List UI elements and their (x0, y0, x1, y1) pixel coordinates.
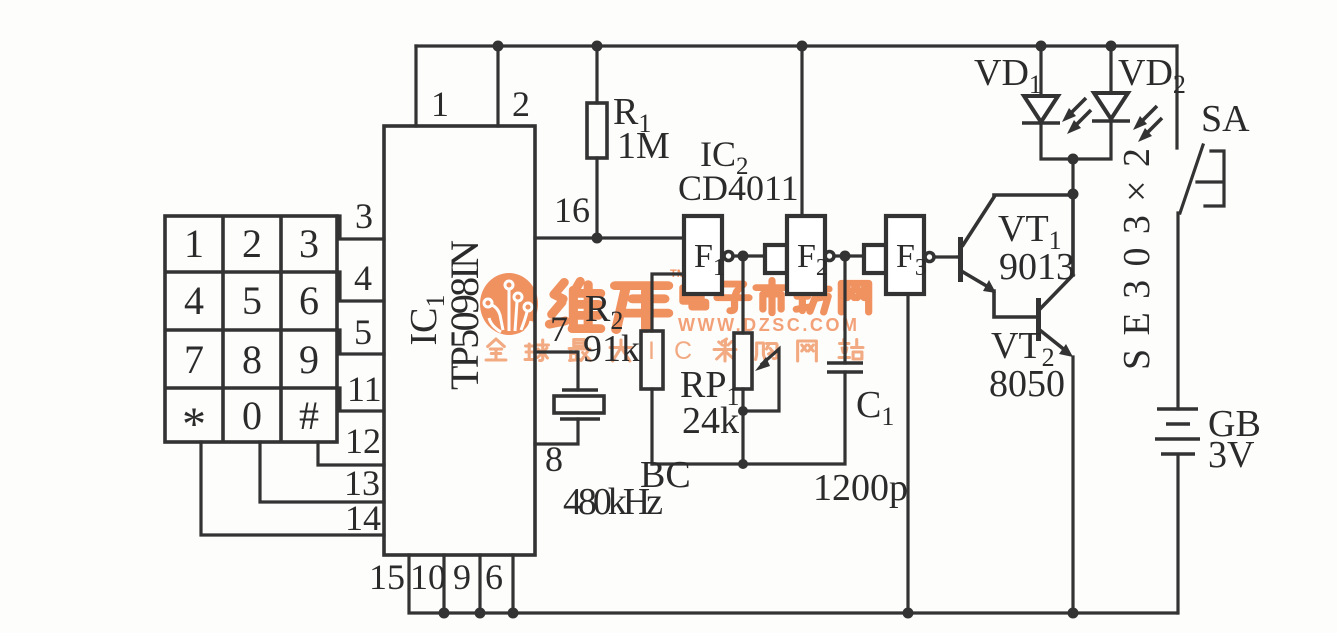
svg-text:8: 8 (242, 337, 262, 382)
svg-text:12: 12 (345, 421, 381, 461)
svg-text:16: 16 (554, 190, 590, 230)
svg-text:7: 7 (550, 309, 568, 349)
svg-text:11: 11 (347, 369, 382, 409)
svg-text:9013: 9013 (999, 246, 1075, 288)
svg-text:TP5098IN: TP5098IN (442, 240, 487, 390)
svg-text:C: C (674, 337, 692, 365)
svg-text:0: 0 (242, 393, 262, 438)
svg-text:1: 1 (184, 221, 204, 266)
svg-text:6: 6 (299, 278, 319, 323)
svg-text:3: 3 (299, 221, 319, 266)
svg-text:7: 7 (184, 337, 204, 382)
svg-text:24k: 24k (682, 400, 739, 442)
svg-text:5: 5 (242, 278, 262, 323)
svg-text:8: 8 (545, 439, 563, 479)
svg-text:4: 4 (354, 258, 372, 298)
svg-text:*: * (182, 398, 206, 451)
svg-text:15: 15 (369, 557, 405, 597)
svg-text:CD4011: CD4011 (678, 168, 799, 208)
svg-text:5: 5 (354, 312, 372, 352)
svg-text:1200p: 1200p (813, 467, 908, 509)
svg-text:WWW.DZSC.COM: WWW.DZSC.COM (678, 315, 860, 335)
svg-text:2: 2 (512, 84, 530, 124)
svg-text:1M: 1M (617, 125, 670, 167)
svg-text:I: I (648, 337, 655, 365)
svg-text:8050: 8050 (989, 363, 1065, 405)
svg-text:13: 13 (344, 463, 380, 503)
svg-text:480kHz: 480kHz (563, 481, 663, 523)
svg-text:3: 3 (355, 196, 373, 236)
svg-text:SA: SA (1201, 98, 1250, 140)
svg-text:9: 9 (453, 557, 471, 597)
svg-text:1: 1 (431, 84, 449, 124)
svg-text:2: 2 (242, 221, 262, 266)
svg-text:9: 9 (299, 337, 319, 382)
svg-text:14: 14 (345, 498, 381, 538)
svg-text:91k: 91k (583, 328, 640, 370)
svg-text:#: # (299, 393, 319, 438)
svg-text:3V: 3V (1208, 434, 1255, 476)
svg-text:6: 6 (485, 557, 503, 597)
svg-text:4: 4 (184, 278, 204, 323)
svg-text:10: 10 (410, 557, 446, 597)
